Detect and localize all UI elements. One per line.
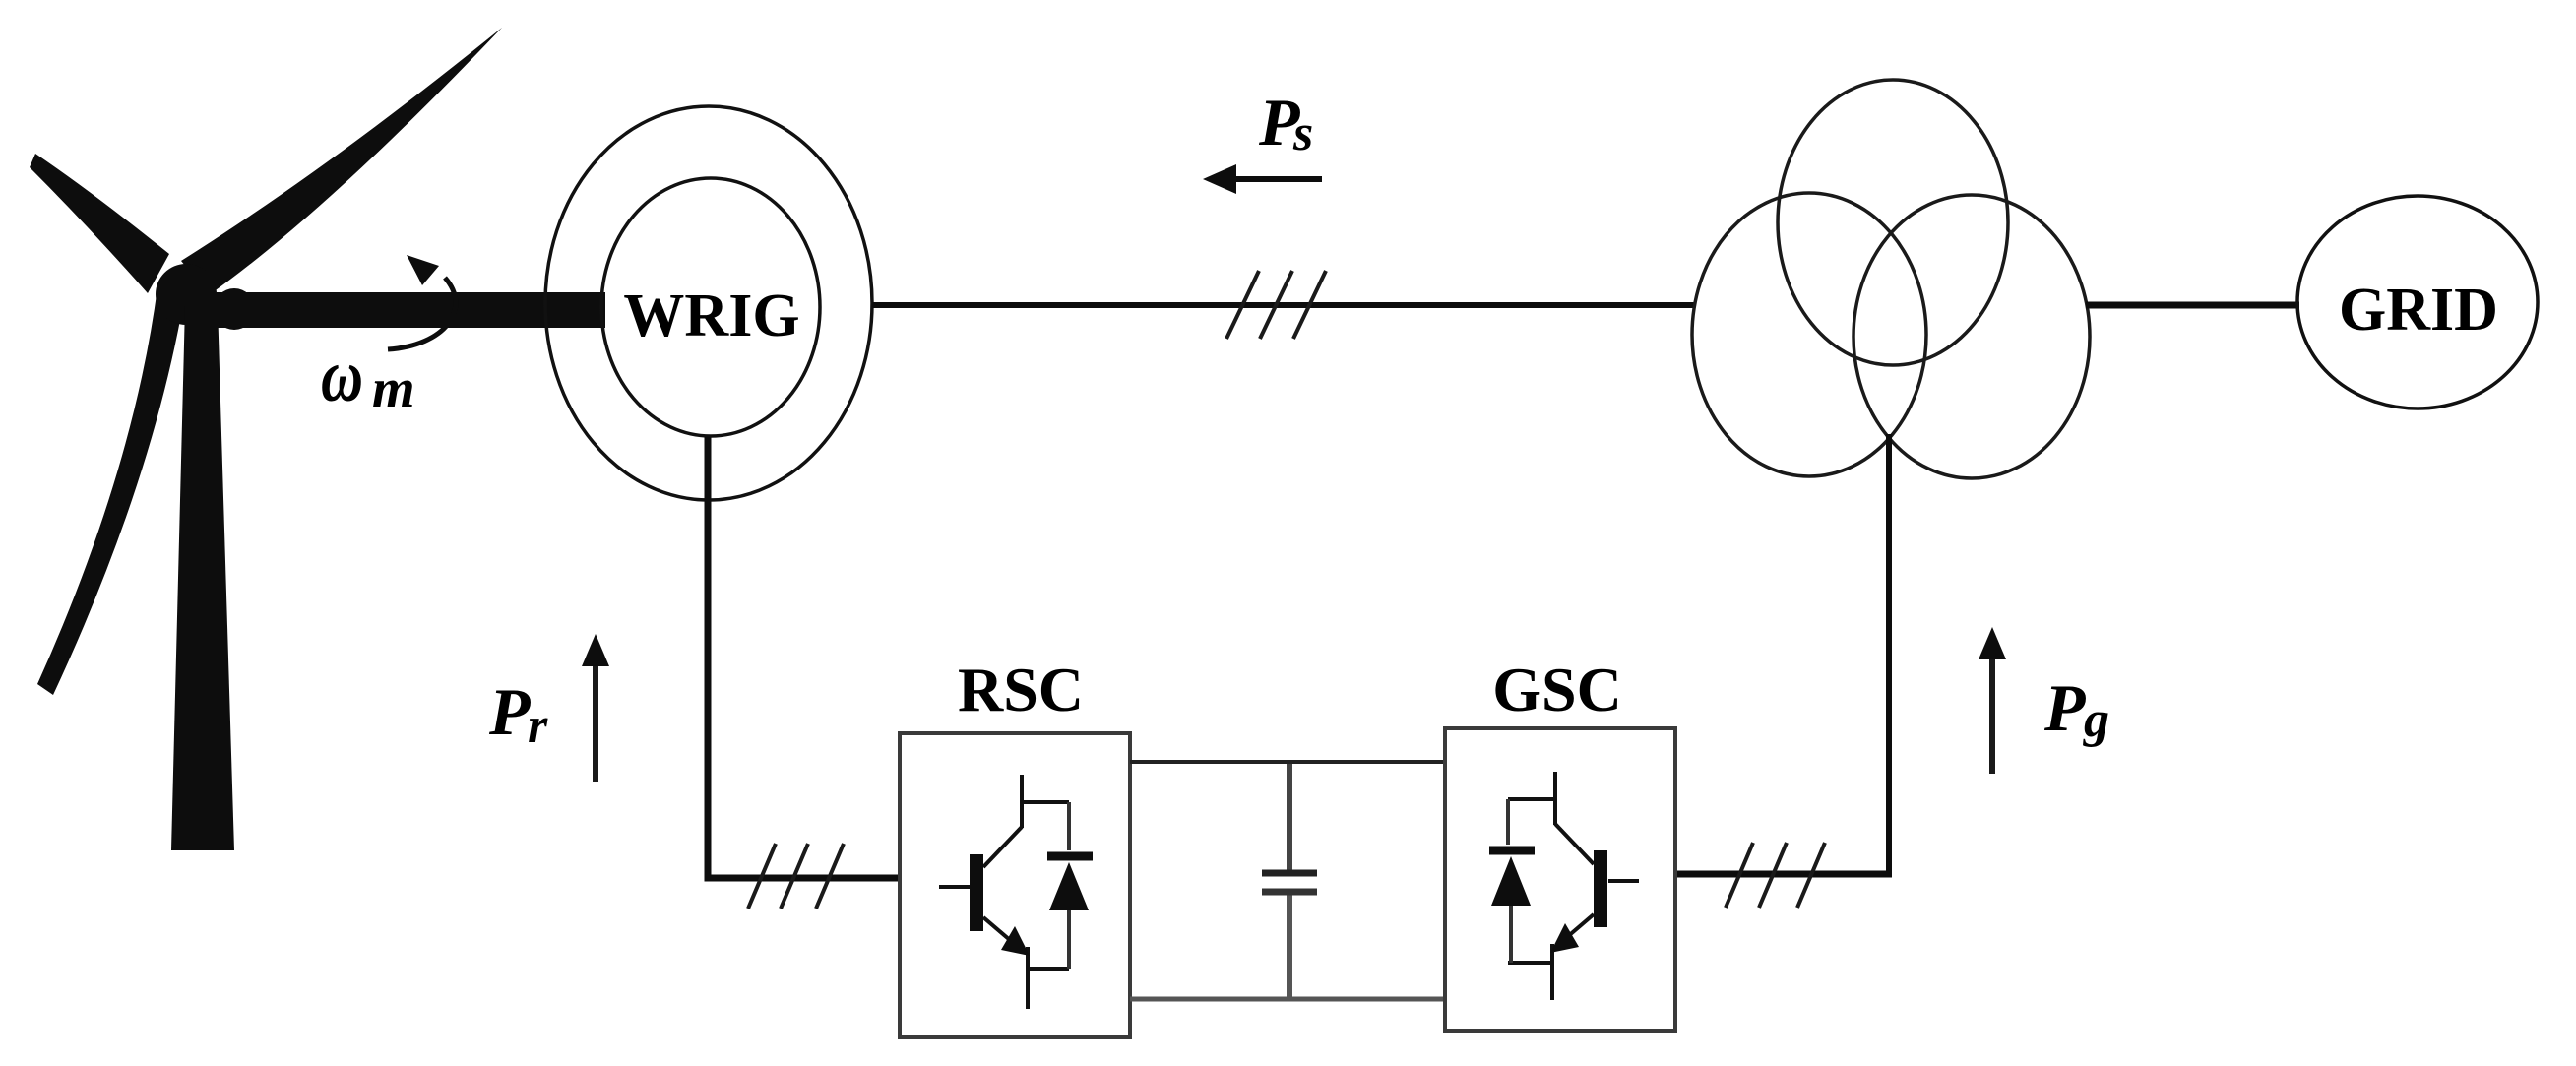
svg-text:P: P [2043,670,2086,745]
wire transformer vertical drop [1886,434,1892,877]
wind turbine WT [30,28,605,850]
transformer T1 top winding [1778,80,2008,365]
three-phase slashes on GSC wire [1726,843,1825,908]
RSC emitter arrowhead [1001,926,1030,956]
shaft [192,292,605,328]
shaft coupling nub [214,288,255,330]
GSC emitter arrowhead [1550,923,1579,953]
emitter lead [1550,944,1554,1000]
three-phase slashes on rotor wire [748,844,844,909]
GSC IGBT Q2 (mirrored) [1508,772,1639,1000]
gate lead [939,885,970,889]
RSC IGBT Q1 [939,775,1069,1009]
converter RSC box [900,733,1130,1037]
emitter-diode tie [1028,967,1069,971]
collector lead [1020,775,1024,828]
wire stator: WRIG to transformer [872,302,1695,308]
generator WRIG inner ellipse [601,178,820,436]
transformer T1 right winding [1853,195,2090,478]
tower [171,305,234,850]
wire transformer to GRID [2086,302,2299,309]
transformer T1 left winding [1692,193,1926,476]
blade B3 lower-left [37,287,181,695]
collector diagonal [983,827,1022,867]
rotation arrow omega [388,278,456,349]
capacitor C1 [1287,764,1292,870]
wire GSC to transformer [1673,871,1892,878]
svg-text:GSC: GSC [1492,655,1622,724]
collector-diode tie [1508,797,1555,801]
collector lead [1553,772,1557,825]
hub [156,264,217,325]
dc bus top [1130,760,1445,764]
svg-text:P: P [488,674,531,749]
dc bus bottom [1130,997,1445,1002]
generator WRIG outer ellipse [545,106,872,500]
GSC diode D2 [1508,799,1511,963]
svg-text:m: m [372,358,415,419]
RSC diode D1 [1067,802,1071,969]
GSC IGBT bar [1594,850,1607,927]
grid G ellipse [2297,196,2538,408]
gate lead [1608,879,1639,883]
svg-text:RSC: RSC [958,655,1084,724]
arrow P_g [1989,655,1995,774]
emitter lead [1026,947,1030,1009]
arrow P_r [593,661,598,782]
svg-text:ω: ω [321,335,363,417]
collector-diode tie [1022,800,1069,804]
svg-text:r: r [528,698,548,754]
collector diagonal [1555,824,1594,864]
svg-text:g: g [2083,692,2109,748]
svg-text:s: s [1292,105,1313,161]
emitter-diode tie [1508,961,1552,965]
emitter diagonal [983,917,1024,952]
RSC IGBT bar [970,854,983,931]
svg-text:WRIG: WRIG [623,282,799,349]
svg-text:GRID: GRID [2339,277,2498,344]
blade B1 upper-right [181,28,502,295]
arrow P_s [1232,176,1322,182]
wire WRIG rotor vertical drop [708,437,900,878]
converter GSC box [1445,728,1675,1031]
three-phase slashes on stator wire [1226,271,1326,339]
emitter diagonal [1553,914,1594,949]
blade B2 upper-left [30,154,169,293]
